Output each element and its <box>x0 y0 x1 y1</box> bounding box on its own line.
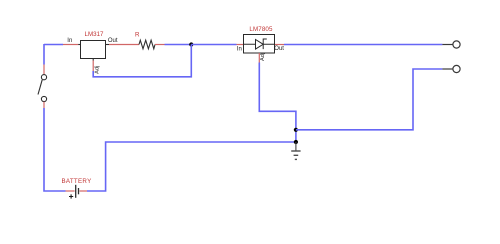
wire LM7805 Adj pin stub <box>258 53 260 63</box>
wire LM7805 Out pin stub <box>275 44 285 46</box>
svg-text:BATTERY: BATTERY <box>61 178 91 185</box>
wire left vertical upper <box>43 44 45 65</box>
svg-text:Out: Out <box>274 46 284 52</box>
wire LM317 Adj pin stub <box>92 59 94 61</box>
wire left vertical lower <box>44 108 66 191</box>
wire LM317 In pin stub <box>63 44 78 46</box>
wire top-left horizontal <box>44 44 63 46</box>
battery BATTERY <box>61 178 91 199</box>
node B junction <box>294 128 298 132</box>
ground <box>291 142 300 159</box>
wire LM7805 In pin stub <box>237 44 245 46</box>
wire node B to output riser <box>296 69 443 130</box>
wire switch top stub <box>43 65 45 75</box>
svg-text:Adj: Adj <box>260 53 266 61</box>
node A junction <box>189 42 193 46</box>
wire node A to LM7805 <box>191 44 236 46</box>
regulator U2 LM7805 <box>237 26 285 61</box>
terminal T2 <box>442 65 460 72</box>
svg-text:Adj: Adj <box>95 66 101 74</box>
wire adj feedback <box>93 45 191 77</box>
svg-text:In: In <box>67 38 72 44</box>
svg-text:Out: Out <box>108 38 118 44</box>
wire LM7805 Out to terminal 1 <box>284 44 442 46</box>
wire LM7805 adj to ground node <box>259 63 296 143</box>
wire LM317 Out pin stub <box>106 44 110 46</box>
wire resistor right stub <box>155 44 165 46</box>
wire to node A <box>165 44 192 46</box>
svg-text:LM317: LM317 <box>85 31 104 38</box>
wire switch bottom stub <box>43 102 45 108</box>
switch <box>38 75 47 102</box>
svg-text:R: R <box>135 32 140 39</box>
regulator U1 LM317 <box>67 31 118 74</box>
svg-text:In: In <box>237 46 242 52</box>
resistor R <box>135 32 155 49</box>
svg-text:LM7805: LM7805 <box>249 26 273 33</box>
terminal T1 <box>442 41 460 48</box>
wire battery to riser <box>87 142 296 191</box>
node C junction <box>294 140 298 144</box>
